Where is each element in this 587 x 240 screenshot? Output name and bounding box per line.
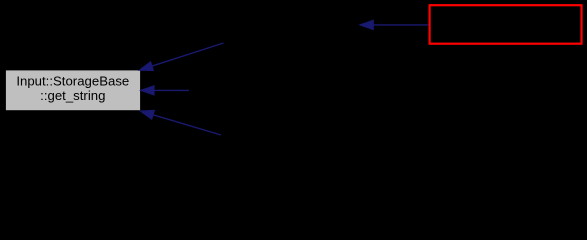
node truncated caller (red border)	[430, 5, 582, 44]
wire edge2 caller2 to get_string	[141, 86, 189, 95]
svg-text:Input::StorageBase: Input::StorageBase	[16, 73, 129, 88]
wire edge4 red node to caller2	[360, 20, 429, 29]
wire edge1 caller1 to get_string	[139, 43, 223, 71]
node Input::StorageBase::get_string (current, grey)	[5, 70, 141, 111]
wire edge3 caller3 to get_string	[140, 110, 221, 135]
svg-text:::get_string: ::get_string	[40, 88, 105, 103]
